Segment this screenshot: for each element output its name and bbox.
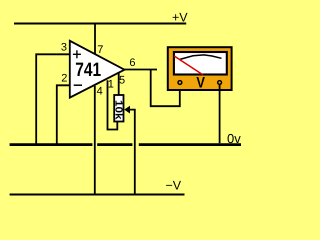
svg-text:2: 2 [61, 73, 67, 85]
svg-text:5: 5 [119, 74, 125, 86]
svg-text:4: 4 [97, 86, 103, 98]
wire pin3 input [36, 54, 70, 143]
wire pin2 input [57, 85, 70, 143]
svg-text:6: 6 [129, 57, 135, 69]
svg-text:0v: 0v [227, 131, 241, 146]
svg-text:7: 7 [97, 44, 103, 56]
wire pin4 to -V (crosses 0v rail) [94, 86, 96, 194]
svg-text:741: 741 [75, 59, 101, 81]
wire pin1 to pot bottom [108, 80, 118, 129]
voltmeter scale window [174, 52, 227, 75]
op-amp U1 741 triangle [70, 41, 125, 98]
svg-text:V: V [196, 75, 205, 92]
svg-text:3: 3 [61, 42, 67, 54]
voltmeter body [168, 47, 232, 90]
potentiometer VR1 10k body [114, 95, 123, 122]
svg-text:+V: +V [172, 10, 188, 24]
wire pin5 to pot top [118, 73, 120, 95]
0v rail (three segments with crossing gaps) [10, 143, 241, 146]
+V rail [14, 23, 186, 25]
wiper wire to -V (crosses 0v rail) [130, 110, 135, 194]
wire output down-right-up to meter left terminal [151, 70, 180, 107]
-V rail [10, 194, 185, 196]
output wire pin6 [125, 69, 158, 71]
svg-text:10k: 10k [112, 100, 123, 120]
op-amp + input mark [73, 50, 81, 58]
op-amp - input mark [74, 84, 82, 86]
voltmeter needle [174, 56, 203, 75]
voltmeter scale arc [180, 55, 222, 60]
svg-text:1: 1 [108, 79, 114, 91]
svg-text:−V: −V [166, 179, 182, 193]
wire pin7 to +V [94, 23, 96, 54]
pot wiper arrow [124, 106, 130, 114]
voltmeter left terminal [178, 81, 182, 85]
voltmeter right terminal [218, 81, 222, 85]
wire meter right terminal to 0v [219, 85, 221, 144]
